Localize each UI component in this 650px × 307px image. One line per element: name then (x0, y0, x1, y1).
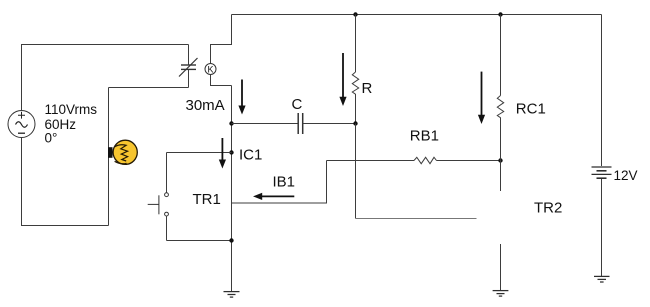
wire switch upper vertical (166, 153, 168, 193)
junction dot switch loop top (229, 150, 233, 154)
svg-text:110Vrms: 110Vrms (45, 102, 98, 117)
svg-text:K: K (207, 64, 213, 74)
lamp X1 (108, 140, 137, 164)
wire battery to ground (601, 179, 603, 276)
svg-text:0°: 0° (45, 131, 58, 146)
ground (TR1) (224, 292, 240, 298)
svg-text:RB1: RB1 (410, 128, 439, 145)
svg-text:IB1: IB1 (273, 173, 296, 190)
junction dot switch loop bottom (229, 238, 233, 242)
variable capacitor C1 (179, 45, 198, 88)
wire AC source bottom (22, 138, 109, 226)
svg-text:12V: 12V (614, 168, 638, 183)
wire AC source top (22, 45, 189, 111)
AC source V1 110Vrms (8, 111, 35, 138)
switch contact upper (165, 193, 169, 197)
switch contact lower (165, 212, 169, 216)
svg-text:TR1: TR1 (193, 191, 221, 208)
wire lamp top to variable capacitor (109, 87, 189, 89)
resistor RB1 (414, 157, 437, 163)
main vertical wire TR1 collector line (231, 86, 233, 292)
wire R node down (355, 124, 357, 219)
junction dot node A to R wire (353, 121, 357, 125)
arrow current RC1 (478, 72, 485, 124)
arrow current IC1 (219, 138, 226, 169)
arrow current IB1 (253, 193, 294, 200)
label 110Vrms 60Hz 0deg (45, 102, 98, 146)
junction node A (229, 121, 233, 125)
junction dot top rail at R (353, 12, 357, 16)
ammeter K wires and jog to top rail (211, 15, 232, 64)
wire RB1 left (327, 160, 415, 162)
wire TR2 base (gray) (356, 217, 477, 219)
svg-text:30mA: 30mA (186, 97, 225, 114)
capacitor C wire left (232, 123, 299, 125)
svg-text:C: C (292, 96, 303, 113)
svg-text:R: R (362, 80, 373, 97)
resistor R (352, 15, 358, 124)
svg-text:RC1: RC1 (516, 101, 546, 118)
wire TR1 base (232, 161, 327, 204)
capacitor C (298, 113, 303, 134)
battery V2 (592, 167, 612, 178)
arrow current R (339, 53, 346, 106)
svg-text:IC1: IC1 (239, 146, 262, 163)
arrow current at node A (238, 80, 245, 115)
svg-text:TR2: TR2 (534, 200, 562, 217)
wire switch loop top (167, 152, 232, 154)
ground (TR2) (493, 291, 509, 297)
junction dot RB1-RC1 (498, 158, 502, 162)
wire RB1 right (437, 160, 501, 162)
resistor RC1 (497, 15, 503, 191)
capacitor C wire right (303, 123, 356, 125)
wire ammeter to node A (211, 75, 232, 86)
wire TR2 emitter stub (500, 244, 502, 290)
wire top rail (232, 14, 602, 16)
pushbutton actuator (148, 195, 159, 214)
wire switch loop bottom (167, 240, 232, 242)
wire right edge down to battery (601, 15, 603, 167)
junction dot top rail at RC1 (498, 12, 502, 16)
ground (battery) (594, 276, 610, 282)
ammeter K (205, 64, 216, 75)
wire switch lower vertical (166, 216, 168, 241)
wire lamp vertical (108, 88, 110, 226)
